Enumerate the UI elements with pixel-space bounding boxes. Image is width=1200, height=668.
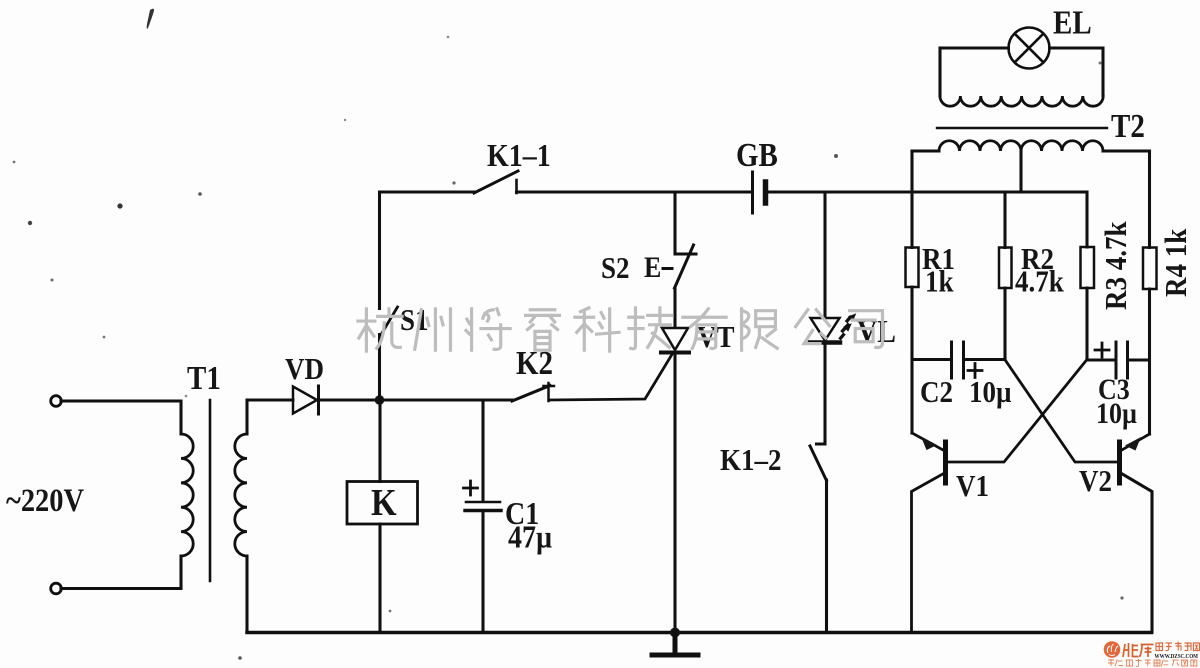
svg-text:C2: C2 <box>920 375 953 409</box>
svg-text:EL: EL <box>1053 4 1092 41</box>
transistor V2 bar <box>1117 442 1122 483</box>
transistor V1 emitter arrow <box>921 437 937 451</box>
battery GB short plate <box>763 182 769 203</box>
svg-text:~220V: ~220V <box>6 482 84 518</box>
logo small chars row <box>1156 642 1200 651</box>
relay K coil box <box>347 482 418 525</box>
plus sign C1 <box>464 481 478 495</box>
lamp EL circle <box>1009 28 1050 69</box>
wire: relay K top lead <box>378 400 381 482</box>
plus sign C2 <box>968 364 982 378</box>
wire: R1 bottom to V1 emitter node <box>910 287 913 433</box>
ground rail <box>247 631 1152 635</box>
wire: R4 branch upper <box>1148 151 1151 248</box>
resistor R1 <box>906 248 919 288</box>
transformer T2 primary winding <box>939 141 1103 151</box>
capacitor C1 bottom plate <box>465 509 501 512</box>
transistor V1 emitter lead <box>912 433 944 451</box>
transistor V2 emitter lead <box>1121 434 1150 451</box>
switch K1-1 right contact tick <box>515 180 518 193</box>
watermark char jiang <box>466 309 510 350</box>
watermark char xian <box>742 309 778 350</box>
svg-text:T1: T1 <box>187 359 221 396</box>
capacitor C2 right plate <box>962 342 965 378</box>
node: ground junction dot <box>670 628 680 638</box>
svg-text:R3 4.7k: R3 4.7k <box>1099 221 1133 310</box>
wire: K2 to VT gate <box>549 354 673 401</box>
svg-text:E: E <box>644 251 661 284</box>
logo char ku <box>1140 645 1154 658</box>
svg-text:R4 1k: R4 1k <box>1159 228 1193 297</box>
svg-text:S2: S2 <box>601 251 630 285</box>
wire: T2 center tap to rail <box>1019 151 1022 192</box>
wire: C1 bottom lead <box>481 512 484 633</box>
wire: S2 branch from top rail <box>675 192 696 254</box>
svg-text:T2: T2 <box>1111 107 1145 144</box>
LED VL light arrow 2 <box>840 323 852 339</box>
watermark company name <box>358 308 883 351</box>
capacitor C1 top plate <box>466 501 500 504</box>
watermark char ji <box>629 308 672 349</box>
wire: R2 branch upper <box>1003 192 1006 248</box>
capacitor C2 left plate <box>950 342 953 378</box>
thyristor VT cathode bar <box>661 351 689 355</box>
watermark char hang <box>358 309 402 351</box>
watermark char ke <box>575 308 619 351</box>
svg-text:10µ: 10µ <box>969 375 1012 409</box>
wire: R1 branch upper <box>910 151 913 248</box>
wire: C2 right lead to R2 bottom corner <box>965 358 1005 361</box>
svg-text:VD: VD <box>285 352 324 386</box>
transistor V2 base wire to cross-coupling <box>1006 361 1119 463</box>
logo circle <box>1104 641 1121 658</box>
battery GB long plate <box>751 172 754 213</box>
svg-text:47µ: 47µ <box>508 519 552 555</box>
wire: top rail K1-1 to GB battery <box>517 190 752 193</box>
wire: vertical riser to S1 <box>378 335 381 401</box>
svg-text:K: K <box>371 481 397 524</box>
wire: C3 left lead <box>1087 358 1115 361</box>
LED VL light arrow 1 <box>844 313 856 329</box>
watermark char zhou <box>415 309 451 350</box>
svg-text:WWW.DZSC.COM: WWW.DZSC.COM <box>1155 653 1199 660</box>
switch K2 blade <box>512 386 550 402</box>
diode VD cathode bar <box>317 386 320 414</box>
diode VD <box>293 387 317 414</box>
wire: AC input top lead <box>61 401 181 434</box>
switch K1-2 blade <box>810 446 827 481</box>
transistor V1 base wire to cross-coupling <box>947 360 1087 463</box>
switch K1-1 blade <box>474 171 518 193</box>
wire: lamp loop <box>940 48 1103 96</box>
plus sign C3 <box>1095 343 1109 357</box>
terminal: AC top circle <box>51 396 62 407</box>
logo dzsc watermark bottom right <box>1104 641 1200 666</box>
wire: T2 primary left end to R1 line <box>912 149 939 152</box>
transformer T1 secondary winding <box>235 434 247 556</box>
label S2 dash <box>663 267 672 270</box>
logo slogan row <box>1108 659 1197 667</box>
svg-text:10µ: 10µ <box>1096 397 1137 430</box>
wire: VD cathode to K2 left contact (node with C1, relay) <box>320 398 512 401</box>
switch S2 blade <box>675 245 694 288</box>
transistor V2 collector lead <box>1121 473 1153 632</box>
svg-text:GB: GB <box>736 136 778 173</box>
LED VL triangle <box>811 318 840 341</box>
transformer T1 core <box>209 400 212 581</box>
wire: R2 bottom lead <box>1003 288 1006 360</box>
wire: VL branch from top rail <box>823 192 826 318</box>
svg-text:4.7k: 4.7k <box>1015 265 1065 299</box>
wire: R3 branch upper <box>1085 192 1088 247</box>
switch S1 blade <box>381 307 398 336</box>
terminal: AC bottom circle <box>51 583 62 594</box>
capacitor C3 right plate <box>1126 342 1129 378</box>
wire: C2 left lead <box>912 358 950 361</box>
wire: relay K bottom lead <box>378 524 381 633</box>
wire: T1 secondary bottom to ground rail <box>245 556 248 633</box>
svg-text:S1: S1 <box>400 303 429 337</box>
node: rectifier output junction dot <box>375 395 385 405</box>
wire: R4 bottom to V2 emitter node <box>1148 289 1151 434</box>
svg-text:1k: 1k <box>925 265 954 299</box>
wire: AC input bottom lead <box>61 556 181 589</box>
lamp EL cross <box>1015 34 1043 62</box>
svg-text:K1–1: K1–1 <box>487 137 551 173</box>
wire: top rail GB to R3 branch <box>767 190 1087 193</box>
ground symbol <box>652 633 698 656</box>
watermark char rui <box>526 310 560 350</box>
logo char wei <box>1123 643 1154 657</box>
transformer T2 secondary winding <box>940 96 1103 106</box>
watermark char si <box>850 311 883 348</box>
capacitor C3 left plate <box>1115 342 1118 378</box>
resistor R2 <box>999 248 1012 289</box>
LED VL cathode bar <box>810 340 840 345</box>
svg-text:V1: V1 <box>956 469 989 503</box>
watermark char you <box>683 309 726 349</box>
wire: C3 right lead to R4 line <box>1129 358 1150 361</box>
transistor V2 emitter arrow <box>1125 437 1141 451</box>
transistor V1 bar <box>943 442 948 483</box>
wire: K1-2 bottom to ground rail <box>825 480 828 633</box>
svg-text:V2: V2 <box>1079 464 1112 498</box>
switch K2 right contact tick <box>544 383 555 401</box>
wire: VT cathode down to ground rail <box>673 353 676 633</box>
wire: R3 bottom lead <box>1085 288 1088 360</box>
watermark char gong <box>796 310 830 344</box>
wire: T1 secondary top to VD anode <box>247 400 293 434</box>
wire: C1 top lead <box>481 400 484 501</box>
resistor R3 <box>1081 247 1095 288</box>
wire: T2 primary right end to R4 line <box>1103 149 1150 152</box>
transformer T2 core <box>937 127 1107 129</box>
wire: VL cathode to K1-2 <box>817 343 826 445</box>
thyristor VT triangle <box>662 328 688 350</box>
transformer T1 primary winding <box>181 434 193 556</box>
wire: S2 to VT anode <box>673 288 676 327</box>
svg-text:K1–2: K1–2 <box>720 443 781 477</box>
transistor V1 collector lead <box>912 473 945 633</box>
resistor R4 <box>1143 248 1157 290</box>
wire: S1 top to top rail corner <box>380 192 475 309</box>
